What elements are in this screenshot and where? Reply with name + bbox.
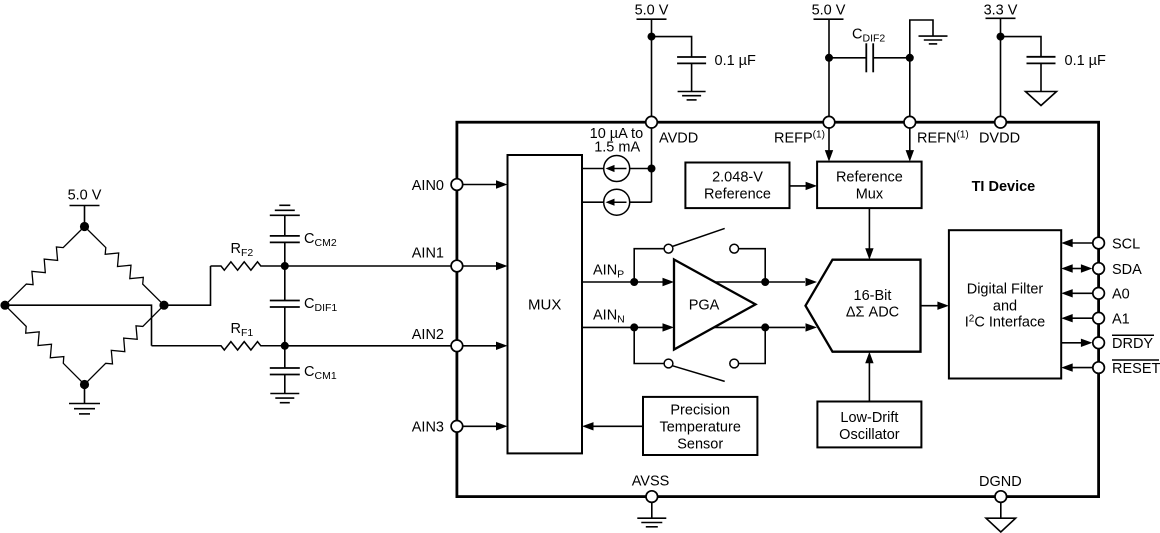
svg-text:RESET: RESET xyxy=(1112,361,1160,377)
svg-text:3.3 V: 3.3 V xyxy=(984,3,1018,19)
pin A0 xyxy=(1093,288,1105,300)
svg-text:TI Device: TI Device xyxy=(972,179,1036,195)
wire ADC to digital filter xyxy=(921,302,949,310)
label CCM2 xyxy=(304,231,337,249)
label Reference Mux xyxy=(836,170,903,203)
label CCM1 xyxy=(304,364,337,382)
pin DGND xyxy=(995,491,1007,503)
svg-text:5.0 V: 5.0 V xyxy=(812,3,846,19)
capacitor CDIF1 xyxy=(270,266,300,346)
pin RESET xyxy=(1093,362,1105,374)
block 16-Bit delta-sigma ADC xyxy=(806,260,921,352)
label A0 xyxy=(1112,287,1130,303)
node RF2/CCM2/AIN1 junction xyxy=(281,262,289,270)
node DVDD bypass junction xyxy=(997,33,1005,41)
ground (DVDD cap, triangle) xyxy=(1026,63,1057,105)
svg-text:DRDY: DRDY xyxy=(1112,336,1153,352)
svg-text:SDA: SDA xyxy=(1112,262,1142,278)
resistor bridge arm bottom-right xyxy=(85,305,165,384)
svg-text:Low-Drift: Low-Drift xyxy=(840,410,898,426)
label AVSS xyxy=(632,474,670,490)
label Low-Drift Oscillator xyxy=(839,410,900,443)
node PGA output P xyxy=(761,278,769,286)
label AIN3 xyxy=(412,420,444,436)
wire digital filter to A0 xyxy=(1061,289,1092,297)
switch S1 pole xyxy=(664,244,673,253)
svg-text:AIN0: AIN0 xyxy=(412,178,444,194)
wire bridge left node to RF1 xyxy=(5,305,152,346)
label CDIF2 xyxy=(852,27,885,45)
label 10 uA to 1.5 mA xyxy=(590,126,644,156)
label Precision Temperature Sensor xyxy=(659,402,740,452)
svg-text:AVDD: AVDD xyxy=(659,131,698,147)
wire digital filter to RESET xyxy=(1061,363,1092,371)
node bridge left xyxy=(0,301,9,310)
node AVDD rail junction xyxy=(648,165,656,173)
label Digital Filter and I2C Interface xyxy=(965,281,1046,330)
wire MUX to current source I2 xyxy=(582,201,604,203)
svg-text:5.0 V: 5.0 V xyxy=(635,3,669,19)
current source I2 xyxy=(604,189,630,215)
wire AIN0 to MUX xyxy=(463,180,507,188)
label SDA xyxy=(1112,262,1142,278)
svg-text:AIN1: AIN1 xyxy=(412,246,444,262)
svg-text:and: and xyxy=(993,298,1017,314)
wire digital filter to A1 xyxy=(1061,314,1092,322)
wire current source I1 to AVDD rail xyxy=(630,168,652,170)
svg-text:AIN3: AIN3 xyxy=(412,420,444,436)
wire current source I2 to AVDD rail xyxy=(630,201,652,203)
label AIN1 xyxy=(412,246,444,262)
label AVDD xyxy=(659,131,698,147)
supply 5.0 V (REFP) xyxy=(812,3,846,123)
label AIN2 xyxy=(412,327,444,343)
label AIN0 xyxy=(412,178,444,194)
ground (bridge) xyxy=(69,385,100,414)
ground (DGND, triangle) xyxy=(986,503,1016,532)
wire MUX to current source I1 xyxy=(582,168,604,170)
label CDIF1 xyxy=(304,296,337,314)
IC outline U1 (TI Device) xyxy=(457,122,1099,496)
wire MUX to AINN xyxy=(582,326,634,328)
ground (AVSS) xyxy=(637,503,666,527)
label SCL xyxy=(1112,236,1140,252)
svg-text:AVSS: AVSS xyxy=(632,474,670,490)
label 0.1 uF (DVDD) xyxy=(1065,53,1107,69)
wire bypass switch to PGA output N xyxy=(739,327,766,363)
wire digital filter to SDA xyxy=(1061,264,1092,272)
label PGA xyxy=(689,297,720,313)
ground (REFN) xyxy=(919,36,948,44)
svg-text:DVDD: DVDD xyxy=(979,131,1020,147)
node PGA output N xyxy=(761,323,769,331)
svg-text:0.1 µF: 0.1 µF xyxy=(1065,53,1107,69)
wire PGA output P to ADC xyxy=(715,278,818,286)
wire to DVDD bypass cap xyxy=(1001,37,1042,57)
block Low-Drift Oscillator xyxy=(817,402,921,448)
svg-text:Reference: Reference xyxy=(836,170,903,186)
wire AINP to bypass switch xyxy=(634,249,664,282)
capacitor CCM1 xyxy=(270,346,300,375)
ground (above CCM2, inverted) xyxy=(270,205,300,236)
node bridge top xyxy=(80,222,89,231)
ground (below CCM1) xyxy=(270,375,299,403)
svg-text:1.5 mA: 1.5 mA xyxy=(594,140,640,156)
block MUX xyxy=(508,155,583,453)
node bridge bottom xyxy=(80,380,89,389)
svg-text:ΔΣ ADC: ΔΣ ADC xyxy=(846,305,899,321)
svg-text:A1: A1 xyxy=(1112,312,1130,328)
switch S1 blade xyxy=(672,228,725,246)
pin SDA xyxy=(1093,263,1105,275)
pin DVDD xyxy=(995,116,1007,128)
node AINP xyxy=(630,278,638,286)
switch S1 throw xyxy=(730,244,739,253)
label RF2 xyxy=(231,241,254,259)
capacitor 0.1 uF (AVDD) xyxy=(677,57,706,63)
pin SCL xyxy=(1093,237,1105,249)
node AVDD bypass junction xyxy=(648,33,656,41)
pin DRDY xyxy=(1093,337,1105,349)
label TI Device xyxy=(972,179,1036,195)
svg-text:Temperature: Temperature xyxy=(659,419,740,435)
svg-text:5.0 V: 5.0 V xyxy=(68,188,102,204)
label REFN(1) xyxy=(917,130,969,147)
op-amp PGA xyxy=(674,260,756,350)
wire CDIF2 right xyxy=(873,57,910,59)
svg-text:Sensor: Sensor xyxy=(677,436,723,452)
pin AIN0 xyxy=(451,179,463,191)
wire to AVDD bypass cap xyxy=(652,37,692,57)
resistor bridge arm top-left xyxy=(5,227,85,306)
wire AVDD rail xyxy=(651,128,653,202)
wire REFN pin xyxy=(909,58,911,122)
block Reference Mux xyxy=(817,162,922,209)
supply 5.0 V (bridge) xyxy=(68,188,102,227)
wire bypass switch to PGA output P xyxy=(739,249,766,282)
capacitor CCM2 xyxy=(270,236,300,266)
label MUX xyxy=(528,297,561,314)
wire bridge right node to RF2 xyxy=(164,266,211,305)
label DVDD xyxy=(979,131,1020,147)
supply 5.0 V (AVDD) xyxy=(635,3,669,123)
node bridge right xyxy=(159,301,168,310)
pin AVDD xyxy=(646,116,658,128)
resistor RF2 xyxy=(211,262,285,270)
wire REFP pin to reference mux xyxy=(825,128,833,161)
supply 3.3 V (DVDD) xyxy=(984,3,1018,123)
resistor RF1 xyxy=(152,342,285,350)
svg-text:16-Bit: 16-Bit xyxy=(854,288,892,304)
svg-text:2.048-V: 2.048-V xyxy=(712,170,763,186)
label REFP(1) xyxy=(774,130,825,147)
wire AINN to bypass switch xyxy=(634,327,664,363)
label A1 xyxy=(1112,312,1130,328)
wire AIN2 to MUX xyxy=(463,342,507,350)
pin A1 xyxy=(1093,312,1105,324)
node REFP/CDIF2 junction xyxy=(825,54,833,62)
node RF1/CDIF1/AIN2 junction xyxy=(281,342,289,350)
label 16-Bit dS ADC xyxy=(846,288,899,321)
label AINN xyxy=(593,308,625,326)
wire REFN to ground xyxy=(910,20,933,58)
wire temperature sensor to MUX xyxy=(582,422,643,430)
resistor bridge arm top-right xyxy=(85,227,165,306)
wire digital filter to SCL xyxy=(1061,239,1092,247)
pin AIN2 xyxy=(451,340,463,352)
svg-text:Digital Filter: Digital Filter xyxy=(967,281,1044,297)
ground (AVDD cap) xyxy=(678,63,706,100)
svg-text:I2C Interface: I2C Interface xyxy=(965,313,1046,330)
label RF1 xyxy=(231,321,254,339)
switch S2 pole xyxy=(664,359,673,368)
wire reference to reference mux xyxy=(790,182,818,190)
label DGND xyxy=(979,474,1022,490)
label AINP xyxy=(593,263,624,281)
pin REFN xyxy=(904,116,916,128)
wire AIN2 net xyxy=(285,345,457,347)
label 2.048-V Reference xyxy=(704,170,771,203)
wire reference mux to ADC xyxy=(865,208,873,260)
svg-text:Reference: Reference xyxy=(704,187,771,203)
capacitor 0.1 uF (DVDD) xyxy=(1027,57,1056,64)
svg-text:MUX: MUX xyxy=(528,297,561,314)
wire PGA output N to ADC xyxy=(715,323,818,331)
svg-text:Oscillator: Oscillator xyxy=(839,427,900,443)
switch S2 blade xyxy=(672,366,725,382)
svg-text:Precision: Precision xyxy=(670,402,730,418)
current source I1 xyxy=(604,156,630,182)
wire AIN3 to MUX xyxy=(463,422,507,430)
block 2.048-V Reference xyxy=(685,163,789,209)
node AINN xyxy=(630,323,638,331)
svg-text:AIN2: AIN2 xyxy=(412,327,444,343)
svg-text:PGA: PGA xyxy=(689,297,720,313)
block Precision Temperature Sensor xyxy=(643,397,757,455)
pin AVSS xyxy=(646,491,658,503)
wire MUX to AINP xyxy=(582,281,634,283)
wire AIN1 net xyxy=(285,265,457,267)
pin AIN1 xyxy=(451,260,463,272)
pin AIN3 xyxy=(451,421,463,433)
wire digital filter to DRDY xyxy=(1061,339,1092,347)
pin REFP xyxy=(823,116,835,128)
label 0.1 uF (AVDD) xyxy=(715,53,757,69)
node REFN/CDIF2 junction xyxy=(906,54,914,62)
wire AIN1 to MUX xyxy=(463,262,507,270)
resistor bridge arm bottom-left xyxy=(5,305,85,384)
switch S2 throw xyxy=(730,359,739,368)
wire AINP into PGA xyxy=(634,278,674,286)
svg-text:A0: A0 xyxy=(1112,287,1130,303)
svg-text:Mux: Mux xyxy=(856,187,884,203)
wire oscillator to ADC xyxy=(865,352,873,402)
capacitor CDIF2 xyxy=(866,43,873,72)
label RESET (active low) xyxy=(1112,360,1160,377)
svg-text:SCL: SCL xyxy=(1112,236,1140,252)
wire AINN into PGA xyxy=(634,323,674,331)
wire CDIF2 left xyxy=(829,57,866,59)
svg-text:DGND: DGND xyxy=(979,474,1022,490)
svg-text:0.1 µF: 0.1 µF xyxy=(715,53,757,69)
block Digital Filter and I2C Interface xyxy=(949,230,1061,378)
label DRDY (active low) xyxy=(1112,335,1154,352)
wire REFN pin to reference mux xyxy=(906,128,914,161)
